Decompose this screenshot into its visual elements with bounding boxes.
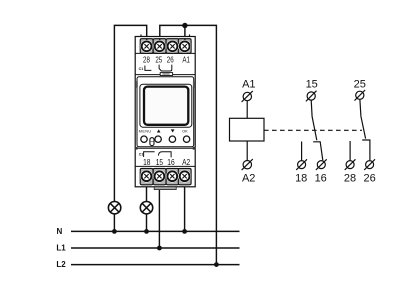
- svg-text:18: 18: [143, 157, 150, 167]
- svg-text:18: 18: [295, 173, 307, 185]
- svg-text:16: 16: [315, 173, 327, 185]
- svg-text:26: 26: [363, 173, 375, 185]
- svg-text:C1: C1: [139, 152, 144, 156]
- svg-text:A2: A2: [182, 157, 190, 167]
- svg-text:28: 28: [344, 173, 356, 185]
- svg-text:N: N: [57, 227, 63, 236]
- svg-text:28: 28: [143, 54, 150, 64]
- svg-text:OK: OK: [182, 130, 188, 134]
- svg-text:15: 15: [306, 78, 318, 90]
- svg-text:MENU: MENU: [139, 130, 152, 134]
- svg-text:A2: A2: [242, 173, 255, 185]
- svg-text:L1: L1: [56, 244, 66, 253]
- svg-text:A1: A1: [182, 54, 190, 64]
- svg-text:15: 15: [156, 157, 163, 167]
- svg-text:A1: A1: [242, 79, 255, 91]
- svg-text:25: 25: [155, 54, 162, 64]
- svg-text:L2: L2: [56, 260, 66, 269]
- svg-text:25: 25: [354, 78, 366, 90]
- svg-text:16: 16: [167, 157, 174, 167]
- svg-text:26: 26: [167, 54, 174, 64]
- svg-text:C1: C1: [139, 67, 144, 71]
